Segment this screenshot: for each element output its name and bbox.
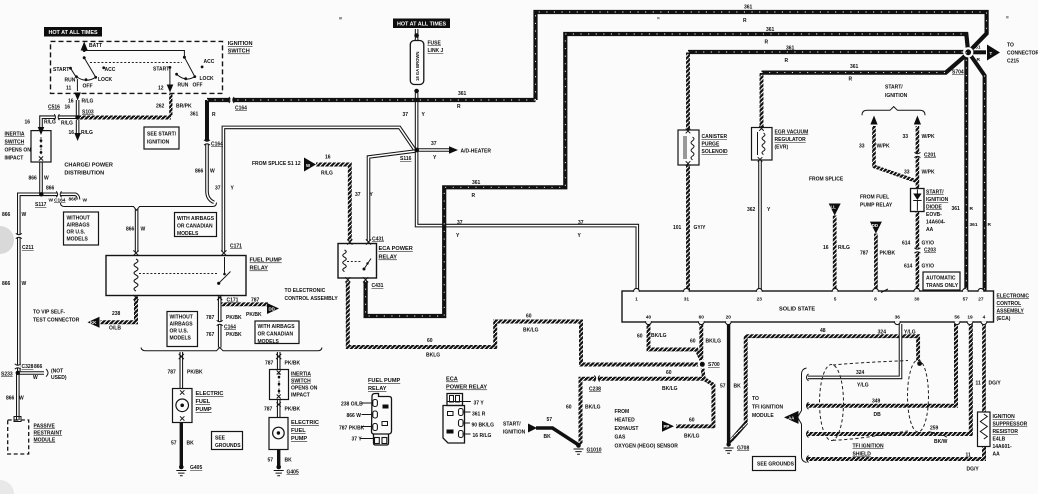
svg-text:C164: C164 xyxy=(224,325,236,331)
svg-text:C164: C164 xyxy=(211,142,223,148)
svg-text:R: R xyxy=(472,193,476,199)
svg-text:C516: C516 xyxy=(48,105,60,111)
svg-text:60: 60 xyxy=(566,405,572,411)
svg-text:OXYGEN (HEGO) SENSOR: OXYGEN (HEGO) SENSOR xyxy=(615,444,679,450)
svg-text:DB: DB xyxy=(874,412,882,418)
svg-text:RESISTOR: RESISTOR xyxy=(993,429,1019,435)
svg-text:CANISTER: CANISTER xyxy=(702,134,728,140)
svg-text:MODULE: MODULE xyxy=(752,413,774,419)
svg-text:S233: S233 xyxy=(1,372,13,378)
svg-text:361: 361 xyxy=(472,180,481,186)
svg-text:REGULATOR: REGULATOR xyxy=(775,137,807,143)
svg-text:TEST CONNECTOR: TEST CONNECTOR xyxy=(33,318,80,324)
svg-text:R/LG: R/LG xyxy=(838,245,850,251)
svg-text:PK/BK: PK/BK xyxy=(285,407,301,413)
svg-text:12: 12 xyxy=(158,86,164,92)
svg-text:PUMP: PUMP xyxy=(196,407,212,413)
svg-text:OFF: OFF xyxy=(193,83,203,89)
svg-text:787: 787 xyxy=(264,407,273,413)
svg-text:SEE: SEE xyxy=(215,436,226,442)
svg-text:C171: C171 xyxy=(227,298,239,304)
svg-text:PK/BK: PK/BK xyxy=(187,370,203,376)
svg-text:R/LG: R/LG xyxy=(82,99,94,105)
svg-text:259: 259 xyxy=(930,426,939,432)
svg-text:WITHOUT: WITHOUT xyxy=(67,216,90,222)
svg-text:BK: BK xyxy=(285,458,293,464)
svg-text:324: 324 xyxy=(856,370,865,376)
svg-text:4: 4 xyxy=(983,315,986,321)
svg-text:36: 36 xyxy=(895,315,901,321)
svg-text:POWER RELAY: POWER RELAY xyxy=(446,385,487,391)
svg-text:C164: C164 xyxy=(235,106,247,112)
svg-text:OR CANADIAN: OR CANADIAN xyxy=(258,332,294,338)
svg-text:RELAY: RELAY xyxy=(368,386,387,392)
svg-text:W: W xyxy=(210,169,215,175)
svg-text:RUN: RUN xyxy=(178,83,189,89)
svg-text:56: 56 xyxy=(954,315,960,321)
svg-text:16: 16 xyxy=(69,130,75,136)
svg-text:37: 37 xyxy=(402,112,408,118)
svg-text:614: 614 xyxy=(904,264,913,270)
svg-text:R: R xyxy=(457,104,461,110)
svg-text:START: START xyxy=(153,67,169,73)
svg-text:BK: BK xyxy=(544,434,552,440)
svg-text:HEATED: HEATED xyxy=(615,418,636,424)
svg-text:C201: C201 xyxy=(924,153,936,159)
svg-text:MODELS: MODELS xyxy=(170,336,192,342)
svg-text:ELECTRIC: ELECTRIC xyxy=(196,391,224,397)
svg-text:S704: S704 xyxy=(952,70,964,76)
svg-text:G405: G405 xyxy=(287,470,299,476)
svg-text:AIRBAGS: AIRBAGS xyxy=(170,322,194,328)
svg-text:R/LG: R/LG xyxy=(61,121,73,127)
svg-text:101: 101 xyxy=(673,225,682,231)
svg-text:866: 866 xyxy=(2,212,11,218)
svg-text:ELECTRIC: ELECTRIC xyxy=(291,420,319,426)
svg-text:INERTIA: INERTIA xyxy=(291,372,311,378)
svg-text:R: R xyxy=(212,112,216,118)
svg-text:R: R xyxy=(743,18,747,24)
svg-text:BATT: BATT xyxy=(89,43,102,49)
svg-text:SWITCH: SWITCH xyxy=(291,379,311,385)
svg-text:14A601-: 14A601- xyxy=(993,444,1013,450)
svg-text:LOCK: LOCK xyxy=(98,77,113,83)
svg-text:787: 787 xyxy=(206,315,215,321)
svg-text:361: 361 xyxy=(850,64,859,70)
svg-text:PK/BK: PK/BK xyxy=(226,332,242,338)
svg-text:R/LG: R/LG xyxy=(44,120,56,126)
svg-text:OPENS ON: OPENS ON xyxy=(5,148,32,154)
svg-text:361: 361 xyxy=(190,112,199,118)
svg-text:W/PK: W/PK xyxy=(877,144,890,150)
svg-text:FUEL: FUEL xyxy=(291,428,306,434)
svg-text:USED): USED) xyxy=(51,375,67,381)
svg-text:IGNITION: IGNITION xyxy=(926,197,949,203)
svg-text:Y/LG: Y/LG xyxy=(857,383,869,389)
svg-text:EXHAUST: EXHAUST xyxy=(615,426,639,432)
svg-text:20: 20 xyxy=(726,315,732,321)
svg-text:R: R xyxy=(785,58,789,64)
svg-text:TO: TO xyxy=(1007,43,1014,49)
svg-text:C164: C164 xyxy=(54,198,66,204)
svg-text:238 O/LB: 238 O/LB xyxy=(341,402,363,408)
svg-text:MODELS: MODELS xyxy=(258,339,280,345)
svg-text:DD: DD xyxy=(269,306,275,311)
svg-text:S103: S103 xyxy=(82,110,94,116)
svg-text:18 GA BROWN: 18 GA BROWN xyxy=(415,52,420,81)
svg-text:BK/LG: BK/LG xyxy=(585,405,601,411)
svg-text:IGNITION: IGNITION xyxy=(147,140,170,146)
svg-text:FROM FUEL: FROM FUEL xyxy=(860,195,889,201)
svg-text:BKLG: BKLG xyxy=(426,353,440,359)
svg-text:787: 787 xyxy=(265,361,274,367)
svg-text:TO VIP SELF-: TO VIP SELF- xyxy=(33,310,65,316)
svg-text:57: 57 xyxy=(547,417,553,423)
svg-text:BK: BK xyxy=(734,384,742,390)
svg-text:57: 57 xyxy=(268,458,274,464)
svg-text:19: 19 xyxy=(967,315,973,321)
svg-text:FUSE: FUSE xyxy=(428,41,442,47)
svg-text:361: 361 xyxy=(952,206,961,212)
svg-text:37: 37 xyxy=(431,141,437,147)
svg-text:23: 23 xyxy=(757,297,763,303)
svg-text:FROM: FROM xyxy=(615,409,630,415)
svg-text:START/: START/ xyxy=(885,85,903,91)
svg-text:O/LB: O/LB xyxy=(109,326,121,332)
svg-text:787 PK/BK: 787 PK/BK xyxy=(339,426,365,432)
svg-text:W: W xyxy=(19,396,24,402)
svg-text:W: W xyxy=(33,375,38,381)
svg-text:33: 33 xyxy=(904,170,910,176)
svg-text:60: 60 xyxy=(637,334,643,340)
svg-text:361: 361 xyxy=(744,5,753,11)
svg-text:BK/LG: BK/LG xyxy=(523,328,539,334)
svg-text:W: W xyxy=(22,212,27,218)
svg-text:C203: C203 xyxy=(924,248,936,254)
svg-text:PK/BK: PK/BK xyxy=(880,251,896,257)
svg-text:IMPACT: IMPACT xyxy=(291,393,310,399)
svg-text:INERTIA: INERTIA xyxy=(5,132,25,138)
svg-text:PURGE: PURGE xyxy=(702,142,720,148)
svg-text:ACC: ACC xyxy=(204,59,215,65)
svg-text:866: 866 xyxy=(6,396,15,402)
svg-text:866: 866 xyxy=(126,227,135,233)
svg-text:33: 33 xyxy=(903,134,909,140)
svg-text:60: 60 xyxy=(689,418,695,424)
svg-text:G1010: G1010 xyxy=(587,448,602,454)
svg-text:361: 361 xyxy=(973,45,981,51)
svg-text:(NOT: (NOT xyxy=(51,369,63,375)
svg-text:PASSIVE: PASSIVE xyxy=(34,424,56,430)
svg-text:DIODE: DIODE xyxy=(926,205,943,211)
svg-text:G405: G405 xyxy=(190,465,202,471)
svg-text:866: 866 xyxy=(46,186,55,192)
svg-text:5: 5 xyxy=(834,297,837,303)
svg-text:AA: AA xyxy=(926,227,934,233)
svg-text:238: 238 xyxy=(112,311,121,317)
svg-text:MODULE: MODULE xyxy=(34,438,56,444)
svg-text:(EVR): (EVR) xyxy=(775,145,789,151)
svg-text:BK/LG: BK/LG xyxy=(684,434,700,440)
svg-text:W/PK: W/PK xyxy=(922,134,935,140)
svg-text:787: 787 xyxy=(251,298,260,304)
svg-text:KK: KK xyxy=(90,320,97,325)
svg-text:W: W xyxy=(141,227,146,233)
svg-text:S116: S116 xyxy=(400,156,412,162)
svg-text:DG/Y: DG/Y xyxy=(989,381,1002,387)
svg-text:FROM SPLICE: FROM SPLICE xyxy=(809,177,844,183)
svg-text:PP: PP xyxy=(664,424,670,429)
svg-text:IGNITION: IGNITION xyxy=(885,93,908,99)
svg-text:787: 787 xyxy=(168,370,177,376)
svg-text:ASSEMBLY: ASSEMBLY xyxy=(997,309,1025,315)
svg-text:BK/LG: BK/LG xyxy=(651,333,667,339)
svg-text:IMPACT: IMPACT xyxy=(5,156,24,162)
svg-text:361: 361 xyxy=(458,91,467,97)
svg-text:614: 614 xyxy=(902,241,911,247)
svg-text:R: R xyxy=(970,206,974,212)
svg-text:OR U.S.: OR U.S. xyxy=(67,230,86,236)
svg-text:OR CANADIAN: OR CANADIAN xyxy=(177,224,213,230)
svg-text:37: 37 xyxy=(355,192,361,198)
svg-text:(ECA): (ECA) xyxy=(997,316,1011,322)
svg-text:14A604-: 14A604- xyxy=(926,220,946,226)
svg-text:C238: C238 xyxy=(589,387,601,393)
svg-text:TRANS ONLY: TRANS ONLY xyxy=(926,283,959,289)
svg-text:IGNITION: IGNITION xyxy=(993,414,1016,420)
svg-text:C171: C171 xyxy=(230,244,242,250)
svg-text:T: T xyxy=(990,51,993,56)
svg-text:BK/LG: BK/LG xyxy=(662,386,678,392)
svg-text:OFF: OFF xyxy=(83,84,93,90)
svg-text:31: 31 xyxy=(684,297,690,303)
svg-text:57: 57 xyxy=(171,441,177,447)
svg-text:OPENS ON: OPENS ON xyxy=(291,386,318,392)
svg-text:361: 361 xyxy=(786,46,795,52)
svg-text:60: 60 xyxy=(666,370,672,376)
svg-text:CHARGE/ POWER: CHARGE/ POWER xyxy=(64,163,112,169)
svg-text:START/: START/ xyxy=(503,422,521,428)
svg-text:W: W xyxy=(22,281,27,287)
svg-text:57: 57 xyxy=(720,384,726,390)
svg-text:PK/BK: PK/BK xyxy=(246,312,262,318)
svg-text:FUEL PUMP: FUEL PUMP xyxy=(250,258,282,264)
svg-text:361 R: 361 R xyxy=(472,412,486,418)
svg-text:11: 11 xyxy=(966,453,972,459)
svg-text:PK/BK: PK/BK xyxy=(285,361,301,367)
svg-text:SEE START/: SEE START/ xyxy=(147,132,177,138)
svg-text:MODELS: MODELS xyxy=(67,237,89,243)
svg-text:TO: TO xyxy=(752,396,759,402)
svg-text:ACC: ACC xyxy=(105,67,116,73)
svg-text:AA: AA xyxy=(993,452,1001,458)
svg-text:DISTRIBUTION: DISTRIBUTION xyxy=(64,171,104,177)
svg-text:349: 349 xyxy=(872,399,881,405)
svg-text:SOLID STATE: SOLID STATE xyxy=(779,307,815,313)
svg-text:EOVB-: EOVB- xyxy=(926,212,942,218)
svg-text:361: 361 xyxy=(766,27,775,33)
svg-text:DD: DD xyxy=(872,223,878,228)
svg-text:WITH AIRBAGS: WITH AIRBAGS xyxy=(258,324,296,330)
svg-text:FROM SPLICE S1 12: FROM SPLICE S1 12 xyxy=(252,161,301,167)
svg-text:E4LB: E4LB xyxy=(993,437,1006,443)
svg-text:S700: S700 xyxy=(708,362,720,368)
svg-text:361: 361 xyxy=(970,222,978,228)
svg-text:Y/LG: Y/LG xyxy=(904,330,916,336)
svg-text:MODELS: MODELS xyxy=(177,231,199,237)
svg-text:PUMP: PUMP xyxy=(291,436,307,442)
svg-text:R: R xyxy=(977,57,981,63)
svg-text:AIRBAGS: AIRBAGS xyxy=(67,223,91,229)
svg-text:W: W xyxy=(49,198,54,204)
svg-text:16: 16 xyxy=(823,245,829,251)
svg-text:WITH AIRBAGS: WITH AIRBAGS xyxy=(177,216,215,222)
svg-text:866 W: 866 W xyxy=(347,413,362,419)
svg-text:A/D-HEATER: A/D-HEATER xyxy=(461,149,492,155)
svg-text:SUPPRESSOR: SUPPRESSOR xyxy=(993,422,1028,428)
svg-text:37: 37 xyxy=(457,220,463,226)
svg-text:11: 11 xyxy=(66,86,72,92)
svg-text:LINK J: LINK J xyxy=(428,48,444,54)
svg-text:C431: C431 xyxy=(372,237,384,243)
svg-text:787: 787 xyxy=(860,251,869,257)
svg-text:R/LG: R/LG xyxy=(321,171,333,177)
svg-text:BK/LG: BK/LG xyxy=(706,339,722,345)
svg-text:EGR VACUUM: EGR VACUUM xyxy=(775,130,809,136)
svg-text:PK/BK: PK/BK xyxy=(226,315,242,321)
svg-text:R/LG: R/LG xyxy=(81,130,93,136)
svg-text:RESTRAINT: RESTRAINT xyxy=(34,431,63,437)
svg-text:PUMP RELAY: PUMP RELAY xyxy=(860,203,893,209)
svg-text:HOT AT ALL TIMES: HOT AT ALL TIMES xyxy=(397,22,447,28)
svg-text:TO ELECTRONIC: TO ELECTRONIC xyxy=(285,288,326,294)
svg-text:866: 866 xyxy=(2,281,11,287)
svg-text:CONNECTOR: CONNECTOR xyxy=(1007,51,1038,57)
svg-text:START/: START/ xyxy=(926,190,944,196)
svg-text:16: 16 xyxy=(65,105,71,111)
svg-text:RUN: RUN xyxy=(65,78,76,84)
svg-text:37 Y: 37 Y xyxy=(352,437,363,443)
svg-text:C431: C431 xyxy=(372,283,384,289)
svg-text:SHIELD: SHIELD xyxy=(853,452,872,458)
svg-text:30: 30 xyxy=(914,297,920,303)
svg-text:R: R xyxy=(988,222,992,228)
svg-text:C211: C211 xyxy=(22,245,34,251)
svg-text:HOT AT ALL TIMES: HOT AT ALL TIMES xyxy=(48,30,98,36)
svg-text:866: 866 xyxy=(34,364,43,370)
svg-text:57: 57 xyxy=(963,297,969,303)
svg-text:G708: G708 xyxy=(737,446,749,452)
svg-text:324: 324 xyxy=(878,330,887,336)
svg-text:262: 262 xyxy=(156,104,165,110)
svg-text:1: 1 xyxy=(635,297,638,303)
svg-text:TFI IGNITION: TFI IGNITION xyxy=(853,444,884,450)
svg-text:GY/O: GY/O xyxy=(922,241,935,247)
svg-text:60: 60 xyxy=(690,339,696,345)
svg-text:W: W xyxy=(83,198,88,204)
svg-text:ECA: ECA xyxy=(446,377,458,383)
svg-text:37: 37 xyxy=(578,220,584,226)
svg-text:90 BK/LG: 90 BK/LG xyxy=(472,423,495,429)
svg-text:16: 16 xyxy=(325,155,331,161)
svg-text:11: 11 xyxy=(976,381,982,387)
svg-text:SWITCH: SWITCH xyxy=(5,140,25,146)
svg-text:DG/Y: DG/Y xyxy=(967,467,980,473)
svg-text:40: 40 xyxy=(646,315,652,321)
svg-text:GROUNDS: GROUNDS xyxy=(215,443,241,449)
svg-text:ELECTRONIC: ELECTRONIC xyxy=(997,294,1030,300)
svg-text:W/PK: W/PK xyxy=(922,170,935,176)
svg-text:866: 866 xyxy=(69,197,77,203)
svg-text:16: 16 xyxy=(24,120,30,126)
svg-text:S117: S117 xyxy=(35,202,47,208)
svg-text:16 R/LG: 16 R/LG xyxy=(473,433,492,439)
svg-text:FUEL PUMP: FUEL PUMP xyxy=(368,378,400,384)
svg-text:FUEL: FUEL xyxy=(196,399,211,405)
svg-text:LOCK: LOCK xyxy=(200,76,215,82)
svg-text:R: R xyxy=(849,77,853,83)
svg-text:48: 48 xyxy=(820,328,826,334)
svg-text:CONTROL: CONTROL xyxy=(997,301,1022,307)
svg-text:SOLENOID: SOLENOID xyxy=(702,149,729,155)
svg-text:BK/W: BK/W xyxy=(934,439,948,445)
svg-text:CONTROL ASSEMBLY: CONTROL ASSEMBLY xyxy=(285,296,339,302)
svg-text:866: 866 xyxy=(29,176,38,182)
svg-text:BK: BK xyxy=(187,441,195,447)
svg-text:60: 60 xyxy=(526,314,532,320)
svg-text:RELAY: RELAY xyxy=(250,266,269,272)
svg-text:START: START xyxy=(53,67,69,73)
svg-text:WITHOUT: WITHOUT xyxy=(170,315,193,321)
svg-text:C215: C215 xyxy=(1007,59,1019,65)
svg-text:OR U.S.: OR U.S. xyxy=(170,329,189,335)
svg-text:LL: LL xyxy=(831,205,837,210)
svg-text:C328: C328 xyxy=(22,364,34,370)
svg-text:27: 27 xyxy=(978,297,984,303)
svg-text:33: 33 xyxy=(859,144,865,150)
svg-text:BR/PK: BR/PK xyxy=(176,104,192,110)
svg-text:SWITCH: SWITCH xyxy=(228,49,250,55)
svg-text:IGNITION: IGNITION xyxy=(228,41,253,47)
svg-text:362: 362 xyxy=(747,207,756,213)
svg-text:37 Y: 37 Y xyxy=(474,401,485,407)
svg-text:60: 60 xyxy=(699,315,705,321)
svg-text:ECA POWER: ECA POWER xyxy=(379,246,413,252)
svg-text:37: 37 xyxy=(215,186,221,192)
svg-text:GY/O: GY/O xyxy=(922,264,935,270)
svg-text:RELAY: RELAY xyxy=(379,255,398,261)
svg-text:IGNITION: IGNITION xyxy=(503,430,526,436)
svg-text:AA: AA xyxy=(788,416,794,421)
svg-text:R: R xyxy=(765,40,769,46)
svg-text:SEE GROUNDS: SEE GROUNDS xyxy=(757,462,795,468)
svg-text:TFI IGNITION: TFI IGNITION xyxy=(752,405,783,411)
svg-text:8: 8 xyxy=(874,297,877,303)
svg-text:866: 866 xyxy=(195,169,204,175)
svg-text:60: 60 xyxy=(427,338,433,344)
svg-text:GY/Y: GY/Y xyxy=(694,225,707,231)
svg-text:W: W xyxy=(44,176,49,182)
svg-text:AUTOMATIC: AUTOMATIC xyxy=(926,276,956,282)
svg-text:GAS: GAS xyxy=(615,435,627,441)
svg-text:767: 767 xyxy=(206,332,215,338)
